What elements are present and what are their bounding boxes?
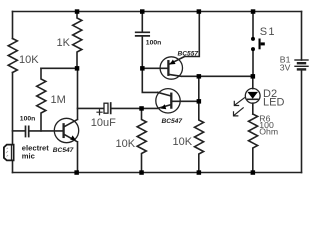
wire node down to Q2 collector bbox=[142, 68, 158, 92]
capacitor C2 plus sign bbox=[97, 110, 102, 115]
svg-text:Ohm: Ohm bbox=[259, 127, 278, 137]
transistor Q2 emitter arrowhead bbox=[161, 104, 167, 109]
svg-text:3V: 3V bbox=[280, 62, 291, 72]
battery B1 long plate 2 bbox=[295, 65, 308, 67]
wire node to Q3 base bbox=[142, 67, 168, 69]
wire Q3 collector node to LED branch bbox=[199, 75, 253, 77]
junction dot Q2 base node bbox=[197, 99, 202, 104]
svg-text:BC547: BC547 bbox=[53, 147, 74, 154]
junction dot bottom rail R6 bbox=[251, 170, 256, 175]
junction dot LED branch top bbox=[251, 74, 256, 79]
junction dot node 10uF bbox=[139, 106, 144, 111]
svg-text:10K: 10K bbox=[116, 138, 136, 150]
wire left side lower bbox=[12, 73, 14, 145]
switch S1 actuator stub bbox=[261, 42, 265, 45]
transistor Q3 emitter bbox=[169, 12, 199, 65]
wire C1 to base Q1 bbox=[29, 130, 63, 132]
svg-text:100n: 100n bbox=[20, 116, 36, 123]
LED D2 cathode bar bbox=[248, 98, 258, 100]
capacitor C2 10uF wire left bbox=[78, 107, 104, 109]
wire top rail bbox=[13, 11, 302, 13]
LED D2 circle bbox=[245, 88, 260, 103]
switch S1 actuator bar bbox=[259, 39, 261, 50]
junction dot top rail 1K bbox=[75, 9, 80, 14]
battery B1 short plate 2 bbox=[298, 68, 305, 70]
wire mic to bottom rail bbox=[12, 161, 14, 173]
capacitor C1 100n plates bbox=[26, 126, 29, 136]
resistor R4 10K right bbox=[195, 101, 204, 172]
battery B1 short plate 1 bbox=[298, 62, 305, 64]
transistor Q1 base bar bbox=[62, 124, 64, 137]
svg-text:10K: 10K bbox=[19, 54, 39, 66]
svg-text:mic: mic bbox=[22, 151, 35, 160]
wire left side upper bbox=[12, 12, 14, 39]
switch S1 wire top bbox=[252, 12, 254, 38]
wire right side lower bbox=[301, 69, 303, 172]
electret mic capsule bbox=[4, 145, 14, 161]
wire node to 1M bbox=[41, 67, 77, 69]
LED emission arrow 1 bbox=[234, 98, 244, 106]
wire C3 to node bbox=[141, 37, 143, 69]
transistor Q3 base bar bbox=[167, 61, 169, 75]
switch S1 wire bottom bbox=[252, 51, 254, 77]
transistor Q1 emitter arrowhead bbox=[70, 135, 76, 140]
battery B1 long plate 1 bbox=[295, 59, 308, 61]
transistor Q2 base bar bbox=[170, 94, 172, 108]
LED D2 triangle bbox=[247, 92, 258, 99]
transistor Q3 BC557 circle bbox=[160, 57, 182, 79]
transistor Q1 collector bbox=[64, 68, 78, 127]
junction dot Q3 collector bbox=[197, 74, 202, 79]
switch S1 terminal dot top bbox=[251, 37, 255, 41]
wire LED to R6 bbox=[252, 103, 254, 114]
junction dot top rail Q3 emitter bbox=[197, 9, 202, 14]
junction dot node C3 base bbox=[140, 66, 145, 71]
svg-text:100n: 100n bbox=[146, 40, 162, 47]
resistor R2 1M bbox=[37, 68, 46, 131]
capacitor C1 100n wire left bbox=[13, 130, 25, 132]
junction dot bottom rail R3 bbox=[139, 170, 144, 175]
svg-text:1K: 1K bbox=[57, 37, 71, 49]
resistor R3 10K middle bbox=[137, 108, 146, 172]
switch S1 terminal dot bottom bbox=[251, 47, 255, 51]
transistor Q1 emitter bbox=[64, 134, 78, 172]
svg-text:BC557: BC557 bbox=[178, 50, 199, 57]
svg-text:BC547: BC547 bbox=[162, 118, 183, 125]
capacitor C2 10uF box plate bbox=[104, 103, 108, 113]
transistor Q2 collector diagonal bbox=[158, 92, 171, 96]
transistor Q3 emitter arrowhead PNP bbox=[170, 60, 176, 65]
capacitor C3 100n top wire bbox=[141, 12, 143, 32]
transistor Q2 base wire bbox=[172, 100, 199, 102]
resistor R1 1K bbox=[73, 12, 82, 69]
capacitor C3 100n plates bbox=[136, 32, 150, 36]
junction dot top rail S1 bbox=[251, 9, 256, 14]
wire bottom rail bbox=[13, 172, 302, 174]
svg-text:LED: LED bbox=[263, 97, 284, 109]
junction dot top rail C3 bbox=[140, 9, 145, 14]
transistor Q2 emitter bbox=[142, 105, 171, 109]
svg-text:10K: 10K bbox=[173, 136, 193, 148]
wire node down bbox=[198, 76, 200, 101]
wire LED top bbox=[252, 76, 254, 88]
transistor Q1 BC547 circle bbox=[54, 118, 78, 142]
capacitor C2 10uF line plate bbox=[110, 103, 112, 113]
junction dot bottom rail R4 bbox=[197, 170, 202, 175]
junction dot node 1K collector bbox=[75, 66, 80, 71]
junction dot bottom rail Q1 emitter bbox=[74, 170, 79, 175]
svg-text:1M: 1M bbox=[51, 94, 66, 106]
wire right side upper bbox=[301, 12, 303, 61]
LED emission arrow 2 bbox=[234, 108, 244, 116]
svg-text:S1: S1 bbox=[260, 26, 276, 38]
resistor R 10K left bbox=[8, 39, 17, 73]
wire C2 to node bbox=[111, 107, 141, 109]
svg-text:10uF: 10uF bbox=[91, 117, 116, 129]
transistor Q2 BC547 circle bbox=[156, 89, 180, 113]
transistor Q3 collector bbox=[169, 74, 199, 76]
resistor R6 100 Ohm bbox=[249, 114, 258, 173]
